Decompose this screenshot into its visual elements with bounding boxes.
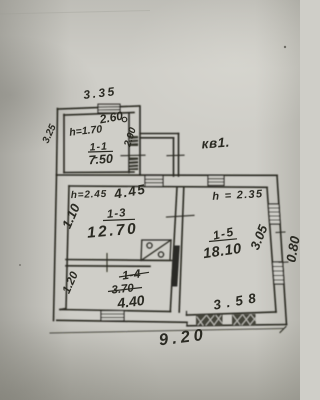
svg-text:1-3: 1-3 xyxy=(106,207,127,221)
svg-text:7.50: 7.50 xyxy=(88,152,113,168)
svg-text:кв1.: кв1. xyxy=(201,135,230,152)
svg-text:h=2.45: h=2.45 xyxy=(71,189,108,201)
